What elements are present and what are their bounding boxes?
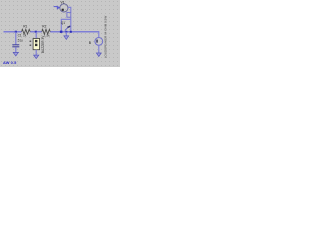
wire: right corner down to lamp bbox=[98, 31, 100, 37]
wire: drop to buzzer bbox=[35, 32, 37, 39]
buzzer pin marks bbox=[30, 41, 32, 42]
ground arrow right bbox=[96, 53, 101, 57]
V1 inner mark bbox=[62, 9, 64, 11]
junction node at C1 branch bbox=[15, 31, 17, 33]
source V1 circle bbox=[60, 4, 68, 12]
svg-text:C1: C1 bbox=[18, 33, 22, 37]
ground arrow center bbox=[64, 36, 69, 40]
wire: V1 to top right corner bbox=[68, 7, 71, 12]
grid dots bbox=[0, 0, 120, 67]
buzzer B1 yellow body bbox=[33, 39, 40, 50]
svg-text:1k: 1k bbox=[23, 33, 27, 37]
coil L1 box bbox=[67, 12, 71, 17]
V1 adjust arrow bbox=[54, 6, 58, 8]
svg-text:Q1: Q1 bbox=[61, 21, 65, 25]
resistor R2 zigzag bbox=[42, 29, 50, 34]
wire: main horizontal rail left segment bbox=[4, 31, 22, 33]
junction node at buzzer branch bbox=[35, 31, 37, 33]
svg-text:51u: 51u bbox=[18, 38, 24, 42]
wire: below C1 bbox=[15, 47, 17, 52]
wire: rail right of R2 to right corner bbox=[50, 31, 99, 33]
capacitor C1 plates bbox=[12, 44, 19, 46]
wire: below buzzer bbox=[35, 50, 37, 55]
svg-text:R2: R2 bbox=[42, 24, 46, 28]
svg-text:LOUDSPEAKER 64 OHM 0.5W: LOUDSPEAKER 64 OHM 0.5W bbox=[103, 16, 107, 59]
wire: branch to left down to rail bbox=[61, 19, 71, 31]
wire: ground stub below rail bbox=[65, 32, 67, 36]
svg-text:AW 0.5: AW 0.5 bbox=[3, 60, 17, 65]
wire: below coil bbox=[70, 17, 72, 24]
wire: C1 vertical drop bbox=[15, 32, 17, 45]
wire: below lamp bbox=[98, 45, 100, 53]
transistor Q1 bbox=[67, 26, 70, 27]
junction node ground tap bbox=[65, 31, 67, 33]
svg-text:R1: R1 bbox=[23, 24, 27, 28]
junction node at Q1 rail bbox=[60, 31, 63, 33]
resistor R1 zigzag bbox=[22, 29, 31, 34]
ground arrow under C1 bbox=[13, 52, 18, 56]
svg-text:1.5k: 1.5k bbox=[44, 33, 50, 37]
background bbox=[0, 0, 120, 67]
lamp M1 circle bbox=[95, 38, 103, 46]
svg-text:BUZZER 3V: BUZZER 3V bbox=[41, 35, 45, 53]
ground arrow under buzzer bbox=[34, 55, 39, 59]
wire: rail between R1 and R2 bbox=[30, 31, 42, 33]
